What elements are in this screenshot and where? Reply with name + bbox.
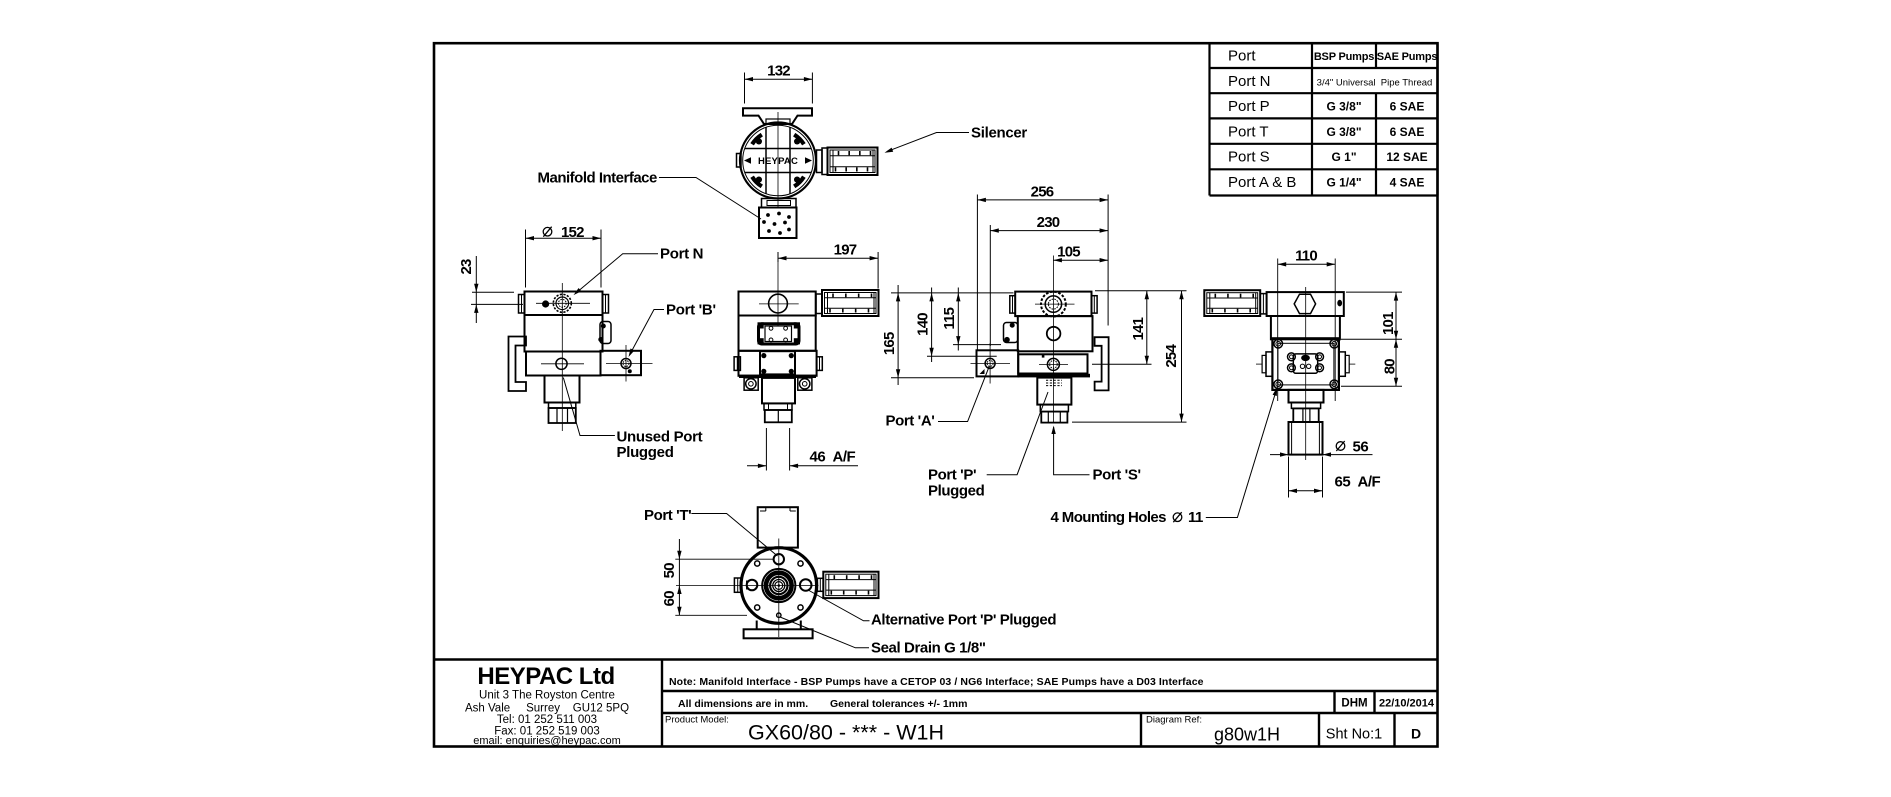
left view: top cap [519,292,609,316]
dimension 256 [977,183,1108,349]
bottom view: silencer [823,572,878,598]
dimension 101 [1380,292,1398,386]
svg-text:Port T: Port T [1228,123,1269,140]
svg-text:6 SAE: 6 SAE [1390,100,1425,114]
front view: filler vent [759,294,799,313]
left view: mid body [525,315,603,352]
right view: port S [1039,358,1068,370]
front view: silencer connector [816,294,822,314]
svg-text:Port N: Port N [660,246,703,263]
svg-text:110: 110 [1295,248,1317,265]
svg-text:101: 101 [1380,312,1397,335]
dimension 165 [881,285,900,385]
end view: vertical centerline [1305,287,1307,460]
left view: mounting flange bracket [509,337,527,392]
label Manifold Interface with leader [538,170,762,220]
dimension 140 [915,288,934,363]
svg-text:Port P: Port P [1228,98,1270,115]
end view: silencer connector [1260,294,1266,314]
end view: mid body [1271,316,1340,339]
svg-text:60: 60 [661,591,678,607]
front view: top cap [739,292,816,316]
svg-text:G 1/4": G 1/4" [1326,176,1361,190]
company block HEYPAC Ltd [465,663,629,747]
left dims shared extension [891,293,1014,378]
port size table [1210,43,1438,195]
top view: manifold neck [762,199,797,208]
svg-text:Manifold Interface: Manifold Interface [538,170,658,187]
svg-text:HEYPAC: HEYPAC [758,156,798,167]
product model row [665,715,1421,745]
dimension 46 A/F [747,428,858,471]
bottom view: right port (alt P) [800,579,812,591]
svg-text:G 1": G 1" [1331,150,1356,164]
svg-text:254: 254 [1163,344,1180,368]
tolerances row [678,698,1435,711]
front view: port bosses [744,378,812,390]
table row Port P [1228,98,1424,115]
right view: top cap [1010,292,1097,317]
right view: bottom plug with threads [1037,378,1071,423]
svg-text:Ash Vale Surrey GU12 5P: Ash Vale Surrey GU12 5PQ [465,703,629,715]
label Port N with leader [574,246,704,296]
end view: 4 mounting bolts [1274,339,1339,388]
dimension 65 A/F [1289,457,1381,498]
drawing sheet frame [434,43,1438,746]
svg-text:DHM: DHM [1341,698,1367,710]
svg-text:g80w1H: g80w1H [1214,725,1280,745]
bottom view: main circle [741,548,817,624]
svg-text:Port 'A': Port 'A' [886,413,935,430]
svg-text:165: 165 [881,332,898,355]
svg-text:56: 56 [1353,438,1369,455]
label Port B with leader [629,302,716,358]
svg-text:Note: Manifold Interface - BSP: Note: Manifold Interface - BSP Pumps hav… [669,676,1204,688]
dimension 141 [1130,291,1149,365]
svg-text:General tolerances +/- 1mm: General tolerances +/- 1mm [830,698,967,710]
svg-text:Port 'B': Port 'B' [666,302,716,319]
svg-text:Unit 3 The Royston Centre: Unit 3 The Royston Centre [479,690,615,702]
svg-text:152: 152 [561,224,584,241]
front view: silencer [822,290,879,316]
svg-text:Port S: Port S [1228,149,1270,166]
front view: mid body [739,316,816,351]
top view: motor flange plate [743,108,812,124]
end view: silencer [1204,290,1260,316]
right view: mid body [1018,316,1093,351]
end view: suction neck [1289,390,1324,409]
bottom view: left port [734,578,757,592]
table header row [1228,48,1437,65]
svg-text:Port 'T': Port 'T' [644,507,691,524]
svg-text:GX60/80 - *** - W1H: GX60/80 - *** - W1H [748,721,944,745]
dimension 115 [941,288,961,351]
label Port A with leader [886,366,990,429]
right view: lower body [1018,354,1087,373]
table row Port A&B [1228,174,1424,191]
dimension 105 [1053,244,1108,263]
left view: unused port [541,358,584,369]
right dims shared extension [1072,291,1187,422]
label Unused Port Plugged with leader [563,378,702,462]
end view: hex filler plug [1294,294,1342,313]
label Port S with leader arrow [1051,426,1140,484]
svg-text:4 Mounting Holes: 4 Mounting Holes [1051,509,1167,526]
end view: side tabs [1256,352,1355,376]
svg-text:Port A & B: Port A & B [1228,174,1296,191]
svg-text:Port N: Port N [1228,73,1271,90]
svg-text:Plugged: Plugged [617,444,674,461]
dimension 23 [458,256,523,323]
svg-text:80: 80 [1382,359,1399,375]
dimension 110 [1278,248,1336,401]
label Silencer with leader [885,125,1028,153]
svg-text:140: 140 [915,313,932,336]
dimension 132 (top view flange width) [745,63,813,104]
front view: manifold interface plate [758,322,801,344]
note row [669,676,1204,688]
svg-text:256: 256 [1031,183,1054,200]
svg-text:22/10/2014: 22/10/2014 [1379,698,1435,710]
svg-text:197: 197 [834,241,857,258]
dimension 230 [990,214,1108,346]
svg-text:3/4" Universal Pipe Thread: 3/4" Universal Pipe Thread [1317,77,1433,88]
table row Port T [1228,123,1424,140]
bottom view: port T [774,554,784,564]
dimension 197 [778,241,878,288]
front view: pump bottom body [762,378,795,410]
svg-text:141: 141 [1130,317,1147,340]
left view: vertical centerline [561,283,563,431]
dimension 80 [1382,339,1399,386]
end view: suction pipe [1289,422,1323,455]
svg-text:Product Model:: Product Model: [665,715,729,726]
svg-text:Port: Port [1228,48,1256,65]
top view: cross casting webs [745,112,812,208]
front view: vertical centerline [777,262,779,326]
svg-text:Alternative Port 'P' Plugged: Alternative Port 'P' Plugged [871,612,1056,629]
svg-text:G 3/8": G 3/8" [1326,100,1361,114]
svg-text:115: 115 [941,307,958,329]
svg-text:HEYPAC Ltd: HEYPAC Ltd [477,663,614,690]
svg-text:All dimensions are in mm.: All dimensions are in mm. [678,698,808,710]
svg-text:Silencer: Silencer [971,125,1027,142]
svg-text:SAE Pumps: SAE Pumps [1377,51,1438,63]
svg-text:46 A/F: 46 A/F [810,449,856,466]
svg-text:email: enquiries@heypac.com: email: enquiries@heypac.com [473,735,621,747]
dimensions 50 and 60 [661,539,773,615]
right view: center port [1047,327,1061,341]
bottom view: foot [744,621,813,639]
end view: manifold interface square [1272,338,1339,390]
right view: seam strip [1018,374,1091,378]
top view: silencer [828,148,878,176]
svg-text:Port 'S': Port 'S' [1093,467,1141,484]
bottom view: pump body above [758,507,798,547]
title block borders [434,660,1438,747]
right view: port A block [977,350,1045,376]
end view: top cap [1267,292,1344,316]
dimension 254 [1163,291,1184,422]
svg-text:6 SAE: 6 SAE [1390,125,1425,139]
svg-text:Sht No:1: Sht No:1 [1326,727,1382,743]
svg-text:132: 132 [767,63,790,80]
svg-text:Plugged: Plugged [928,483,985,500]
front view: hex plug [765,410,792,422]
dims 101 and 80 extensions [1341,292,1402,386]
front view: lower section [734,351,822,376]
left view: lower body [526,352,601,376]
svg-text:Port 'P': Port 'P' [928,467,976,484]
right view: mounting flange bracket [1095,337,1109,390]
top view: manifold interface block [759,208,797,239]
svg-text:105: 105 [1057,244,1080,261]
label 4 Mounting Holes dia 11 with leader arrow [1051,387,1278,526]
svg-text:Tel: 01 252 511 003: Tel: 01 252 511 003 [497,714,597,726]
svg-text:11: 11 [1188,509,1203,526]
label Seal Drain G 1/8 with leader [780,617,986,657]
left view: port B [606,345,653,382]
label Port T with leader [644,507,778,556]
left view: clip detail [598,322,611,344]
end view: D03 valve pattern [1288,353,1324,373]
right view: port A [971,343,1011,384]
right view: vertical centerline [1052,256,1054,424]
svg-text:BSP Pumps: BSP Pumps [1314,51,1374,63]
dimension dia 56 [1270,438,1373,457]
dimension dia 152 [526,224,602,288]
top view: HEYPAC name band [744,156,812,167]
svg-text:23: 23 [458,259,475,275]
bottom view: centerlines [676,539,819,638]
svg-text:Seal Drain G 1/8": Seal Drain G 1/8" [871,640,986,657]
front view: seam strip [739,375,816,378]
left view: port B block [601,351,642,375]
label Alternative Port P Plugged with leader [809,591,1056,629]
bottom view: seal drain [777,613,781,617]
end view: hex nut [1293,408,1318,422]
svg-text:65 A/F: 65 A/F [1335,473,1381,490]
top view: port N boss tab [737,154,742,168]
svg-text:Unused Port: Unused Port [617,429,703,446]
bottom view: silencer connector [817,578,823,591]
svg-text:50: 50 [661,563,678,579]
top view: pump housing circle [740,123,816,199]
right view: port N plug (large) [1035,292,1075,317]
top view: silencer connector [817,148,828,175]
table row Port N [1228,73,1432,90]
svg-text:G 3/8": G 3/8" [1326,125,1361,139]
right view: clip detail [1004,323,1018,343]
left view: port N plug [536,294,590,312]
bottom view: center shaft boss [762,569,795,602]
svg-text:12 SAE: 12 SAE [1386,150,1427,164]
bottom view: 4 bolt holes [755,561,804,610]
svg-text:230: 230 [1037,214,1060,231]
svg-text:4 SAE: 4 SAE [1390,176,1425,190]
svg-text:D: D [1411,726,1421,742]
svg-text:Diagram Ref:: Diagram Ref: [1146,715,1202,726]
table row Port S [1228,149,1428,166]
label Port P Plugged with leader [928,392,1048,500]
left view: bottom plug [545,376,580,424]
